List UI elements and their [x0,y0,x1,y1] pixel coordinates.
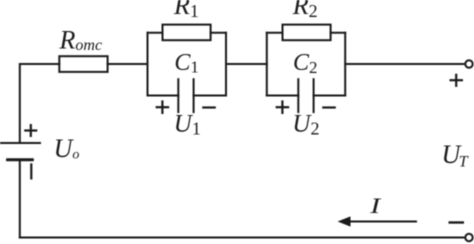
svg-text:Uo: Uo [54,134,80,163]
resistor R1 [163,25,211,41]
capacitor C2 right plate [313,79,315,112]
battery Uo long plate [0,142,40,144]
box1 bottom edge right segment [194,95,226,97]
svg-text:C2: C2 [293,50,318,77]
svg-text:UT: UT [442,140,469,171]
box2 right vertical [344,33,346,96]
label I current [369,194,382,218]
svg-text:C1: C1 [174,50,199,77]
terminal minus sign [449,221,465,223]
capacitor C2 left plate [297,79,299,112]
battery plus sign [24,129,37,131]
resistor Romc [59,56,107,72]
resistor R2 [283,25,331,41]
wire box1 to box2 [226,63,267,65]
svg-text:R2: R2 [292,0,318,21]
svg-text:U1: U1 [174,110,201,138]
battery Uo short plate [8,158,33,161]
capacitor C1 left plate [177,79,179,112]
svg-text:R1: R1 [173,0,199,21]
box2 top edge left segment [267,32,283,34]
terminal plus sign [450,79,464,81]
box1 top edge left segment [148,32,163,34]
box2 bottom edge left segment [267,95,299,97]
wire box2 to positive terminal [345,63,464,65]
C1 plus sign [156,106,170,108]
C2 minus sign [322,106,336,108]
svg-text:I: I [369,194,382,218]
box1 top edge right segment [211,32,226,34]
box2 left vertical [266,33,268,96]
svg-text:Romc: Romc [59,26,103,55]
svg-text:U2: U2 [292,110,319,138]
box1 bottom edge left segment [148,95,179,97]
current arrow I line [349,221,417,223]
box1 right vertical [225,33,227,96]
box2 bottom edge right segment [314,95,346,97]
C1 minus sign [202,106,216,108]
negative terminal circle [465,234,472,241]
wire Romc to box1 [108,63,148,65]
wire left vertical top (node from battery + to Romc) [20,64,60,143]
current arrow head [338,216,351,226]
box1 left vertical [147,33,149,96]
positive terminal circle [465,60,472,67]
battery minus tick [30,163,32,179]
C2 plus sign [276,106,290,108]
box2 top edge right segment [331,32,346,34]
capacitor C1 right plate [193,79,195,112]
wire battery negative down [19,160,21,238]
bottom return wire [20,237,465,239]
